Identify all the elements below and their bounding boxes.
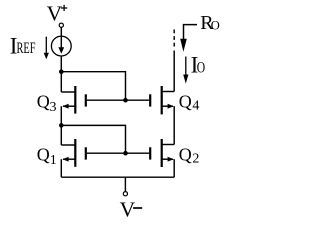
svg-text:2: 2: [192, 152, 199, 167]
wire junction to lower gates: [61, 125, 125, 153]
svg-text:Q: Q: [37, 144, 50, 164]
node: Q3 source / Q1 drain junction: [59, 123, 64, 128]
transistor Q3: [61, 86, 86, 114]
Io arrow: [183, 57, 188, 84]
wire Q4 source to Q2 drain: [173, 106, 175, 144]
wire junction to gates (top horizontal + vertical): [61, 72, 125, 101]
node: gate line junction (Q3,Q4 gates): [123, 98, 128, 103]
wire Q4 drain up (solid part): [173, 51, 175, 92]
wire Q3 source down to node: [60, 106, 62, 145]
label Q1: [37, 144, 57, 168]
label Q2: [179, 144, 200, 166]
svg-text:V: V: [47, 2, 63, 26]
label V+: [47, 2, 68, 26]
terminal V+ (open circle): [59, 23, 63, 27]
svg-text:Q: Q: [179, 144, 192, 164]
svg-text:O: O: [211, 19, 220, 33]
wire: bottom rail: [61, 176, 174, 178]
label IREF with down arrow: [10, 33, 49, 59]
svg-text:O: O: [197, 59, 205, 76]
node: gate line junction (Q1,Q2 gates): [123, 151, 128, 156]
wire Q4 drain dashed continuation: [173, 30, 175, 47]
wire Q2 source down to rail: [173, 159, 175, 177]
svg-text:1: 1: [50, 153, 57, 168]
node: IREF / Q3 drain junction: [59, 69, 64, 74]
terminal V- (stub + open circle): [123, 177, 127, 196]
cascode MOS current mirror schematic: [0, 0, 235, 229]
wire current source to Q3 drain: [60, 56, 62, 92]
wire terminal to current source: [60, 27, 62, 36]
Ro indicator arrow (corner + long arrowhead): [180, 25, 197, 52]
svg-text:V: V: [120, 197, 136, 221]
wire Q1 source down to rail: [60, 159, 62, 177]
label Ro: [200, 12, 220, 34]
transistor Q1: [61, 139, 86, 167]
label Q4: [179, 91, 200, 113]
svg-text:REF: REF: [17, 40, 36, 57]
label Q3: [37, 91, 57, 115]
wire: common gate line Q1-Q2: [87, 152, 150, 154]
svg-text:4: 4: [192, 99, 199, 114]
svg-text:Q: Q: [37, 91, 50, 111]
transistor Q4: [150, 86, 174, 114]
label V-: [120, 197, 143, 221]
transistor Q2: [150, 139, 174, 167]
svg-text:3: 3: [50, 100, 57, 115]
label Io: [191, 52, 206, 77]
svg-text:Q: Q: [179, 91, 192, 111]
current source IREF (circle with down arrow): [51, 36, 71, 56]
wire: common gate line Q3-Q4: [87, 99, 150, 101]
